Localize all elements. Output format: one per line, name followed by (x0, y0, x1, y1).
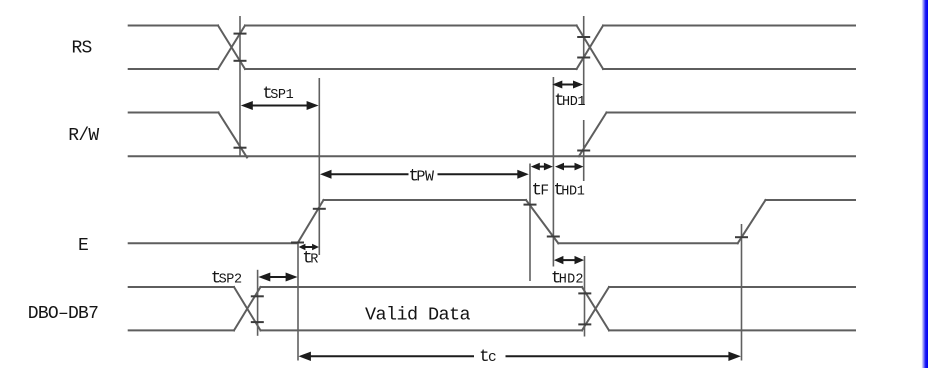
svg-text:Valid Data: Valid Data (365, 304, 471, 325)
node label tHD1 top (554, 91, 585, 111)
node tick E falling edge lower (547, 236, 560, 238)
node tick E rising edge 2 (735, 236, 748, 238)
svg-text:c: c (488, 350, 496, 366)
node label tHD1 mid (553, 181, 584, 201)
wire E low segment mid (558, 242, 737, 244)
arrow tc (298, 352, 741, 361)
node reference line x=319 (318, 78, 320, 255)
node tick RS crossover 2 upper (577, 36, 590, 38)
node tick RS crossover 2 lower (577, 57, 590, 59)
svg-text:SP2: SP2 (219, 272, 242, 287)
wire E low segment left (129, 242, 298, 244)
svg-text:RS: RS (72, 38, 92, 58)
arrow tPW (320, 170, 529, 179)
node tick E rising edge 1 upper (313, 208, 326, 210)
wire DB high rail (129, 286, 855, 288)
wire DB crossover 2 (582, 287, 609, 330)
svg-text:R/W: R/W (68, 126, 99, 146)
node reference line x=298 (297, 242, 299, 361)
node reference line x=583.7 lower (583, 120, 585, 181)
svg-text:SP1: SP1 (270, 88, 293, 103)
wire RS high rail (129, 25, 855, 27)
wire E rising edge 1 (298, 200, 324, 243)
node tick E rising edge 1 lower (291, 242, 304, 244)
node label tF (532, 181, 549, 201)
node label tSP2 (211, 268, 242, 288)
node reference line x=741.5 (741, 224, 743, 361)
wire R/W low rail (129, 155, 855, 157)
node label tPW (409, 167, 435, 187)
node reference line x=530 (529, 164, 531, 282)
arrow tHD2 (554, 256, 584, 264)
node tick DB crossover 2 upper (578, 292, 591, 294)
svg-text:DBO–DB7: DBO–DB7 (28, 304, 98, 324)
node tick DB crossover 1 lower (251, 321, 264, 323)
arrow tF (531, 163, 553, 171)
node tick R/W falling edge (234, 147, 247, 149)
wire RS low rail (129, 68, 855, 70)
svg-text:HD1: HD1 (561, 185, 584, 200)
node label tR (302, 249, 318, 269)
wire E falling edge (526, 200, 558, 243)
arrow tHD1 top (552, 81, 583, 89)
svg-text:E: E (78, 236, 88, 256)
node tick E falling edge upper (524, 204, 537, 206)
node reference line x=240 (239, 16, 241, 156)
wire DB crossover 1 (234, 287, 261, 330)
wire R/W falling edge (219, 113, 248, 158)
svg-text:R: R (310, 253, 318, 268)
svg-text:PW: PW (416, 169, 434, 186)
svg-text:HD1: HD1 (562, 95, 585, 110)
wire E high pulse (324, 199, 527, 201)
wire RS crossover 2 (577, 26, 604, 70)
wire E high segment right (766, 199, 856, 201)
svg-text:HD2: HD2 (559, 272, 584, 287)
node label tSP1 (262, 84, 293, 104)
node tick RS crossover 1 lower (234, 60, 247, 62)
arrow tHD1 mid (555, 163, 584, 171)
wire R/W high segment left (129, 112, 219, 114)
wire DB low rail (129, 329, 855, 331)
arrow tSP1 (241, 101, 319, 110)
arrow tSP2 (258, 273, 297, 282)
node reference line x=583.7 upper (583, 16, 585, 105)
wire E rising edge 2 (738, 200, 766, 243)
svg-text:F: F (540, 184, 548, 200)
node reference line x=584.5 (584, 256, 586, 337)
node tick DB crossover 1 upper (251, 295, 264, 297)
node tick DB crossover 2 lower (578, 323, 591, 325)
node label tHD2 (551, 268, 584, 288)
node blue page edge stripe (922, 0, 928, 368)
node reference line x=257.6 (257, 270, 259, 336)
node reference line x=553.4 (552, 77, 554, 267)
wire R/W rising edge (579, 113, 607, 157)
node tick RS crossover 1 upper (234, 33, 247, 35)
node label tc (479, 347, 496, 367)
arrow tR (299, 244, 319, 250)
wire R/W high segment right (607, 112, 856, 114)
node tick R/W rising edge (577, 150, 590, 152)
wire RS crossover 1 (218, 26, 245, 70)
